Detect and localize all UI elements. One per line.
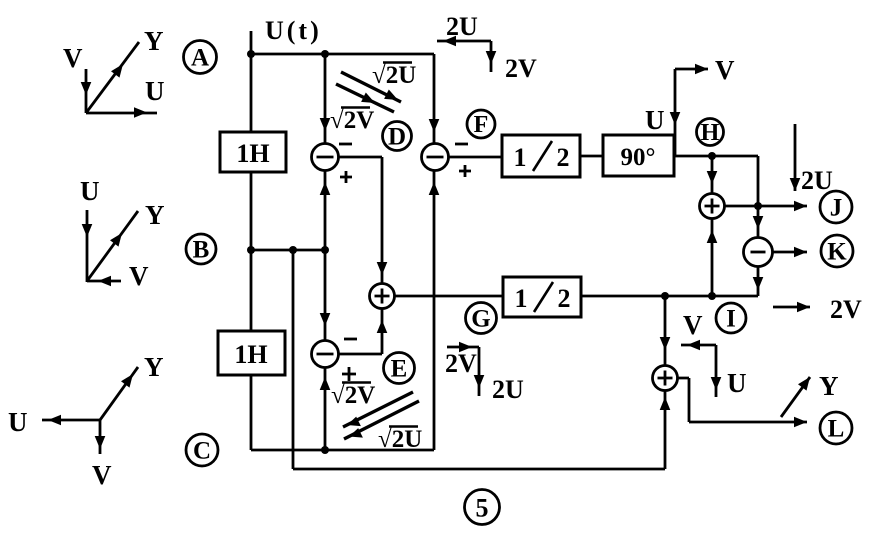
node K xyxy=(821,235,853,267)
value label sqrt2V (top) xyxy=(330,107,374,134)
svg-text:2U: 2U xyxy=(446,12,478,41)
wire: F output to 1/2 box xyxy=(449,156,503,159)
wire: arrow toward node J xyxy=(794,201,807,212)
label plus at E xyxy=(342,367,356,381)
wire: arrow into F top xyxy=(429,119,440,132)
svg-text:U: U xyxy=(645,105,665,135)
svg-text:√2U: √2U xyxy=(378,426,422,453)
svg-text:2U: 2U xyxy=(492,375,524,404)
label minus at D xyxy=(339,143,352,146)
wire: left bus x=251 (U(t) input down to bottom) xyxy=(250,31,253,450)
svg-text:Y: Y xyxy=(144,352,164,382)
svg-text:Y: Y xyxy=(145,200,165,230)
summer F (minus) xyxy=(422,144,449,171)
node J xyxy=(820,191,852,223)
svg-text:1: 1 xyxy=(515,284,528,313)
svg-text:U: U xyxy=(80,176,100,206)
wire: adder output to 1/2 box xyxy=(395,295,504,298)
block 90deg xyxy=(603,135,674,176)
node E xyxy=(384,353,415,384)
wire: right edge x=434 upper (into F) xyxy=(433,54,436,144)
svg-text:√2V: √2V xyxy=(330,107,374,134)
phasor arrow sqrt2V (bottom pair, upper) xyxy=(343,392,413,427)
wire: B bus y=250 xyxy=(251,249,325,252)
wire: x=325 from top edge into D xyxy=(324,54,327,144)
node G xyxy=(466,303,497,334)
svg-text:U: U xyxy=(145,76,165,106)
wire: arrow into adder L bottom xyxy=(660,397,671,410)
block 1H (lower) xyxy=(218,331,285,375)
svg-text:U(t): U(t) xyxy=(265,16,322,45)
svg-text:J: J xyxy=(830,195,843,222)
wire: 90deg output line y=156 xyxy=(674,155,758,158)
junction B bus / x=325 xyxy=(321,246,329,254)
junction 2V bus / L branch xyxy=(661,292,669,300)
phasor diagram C: U axis xyxy=(42,415,100,426)
svg-text:D: D xyxy=(388,124,406,151)
svg-text:2: 2 xyxy=(557,143,570,172)
phasor diagram B: U axis xyxy=(82,210,93,282)
svg-text:√2U: √2U xyxy=(372,62,416,89)
value label sqrt2U (top) xyxy=(372,62,416,89)
wire: arrow into D top xyxy=(320,118,331,131)
phasor diagram C: V axis xyxy=(95,420,106,454)
wire: arrow down on V tap (U flow) xyxy=(670,112,681,125)
junction 2V bus / H branch xyxy=(708,292,716,300)
marker right arrow 2V xyxy=(773,302,810,313)
marker down arrow 2U (right) xyxy=(790,124,801,191)
label minus at F xyxy=(455,143,468,146)
svg-text:K: K xyxy=(827,239,847,266)
block 1H (upper) xyxy=(220,132,286,172)
node A xyxy=(184,41,217,74)
wire: arrow below K xyxy=(753,277,764,290)
wire: arrow into K top xyxy=(753,216,764,229)
wire: x=325 between D and E xyxy=(324,171,327,341)
svg-text:L: L xyxy=(828,416,845,443)
svg-text:2V: 2V xyxy=(445,349,477,378)
wire: x=665 branch down to adder L xyxy=(664,296,667,366)
node C xyxy=(186,434,218,466)
adder (plus) below H xyxy=(700,194,725,219)
wire: bottom return bus y=469 xyxy=(293,468,665,471)
wire: arrow toward V label xyxy=(695,64,708,75)
wire: x=758 down through J line into K xyxy=(757,156,760,238)
wire: top edge y=54 xyxy=(251,53,434,56)
wire: x=293 vertical down xyxy=(292,250,295,469)
wire: arrow into adder bottom xyxy=(377,320,388,333)
svg-text:1H: 1H xyxy=(234,340,267,369)
svg-text:2: 2 xyxy=(558,284,571,313)
svg-text:E: E xyxy=(391,356,408,383)
junction top edge / D branch xyxy=(321,50,329,58)
phasor diagram B: Y axis xyxy=(87,211,138,281)
wire: arrow into adder H bottom xyxy=(707,230,718,243)
node L xyxy=(820,412,852,444)
wire: arrow into E top xyxy=(320,313,331,326)
svg-text:√2V: √2V xyxy=(331,382,375,409)
wire: K bottom to 2V bus xyxy=(757,267,760,297)
wire: arrow into D bottom xyxy=(320,182,331,195)
summer E (minus) xyxy=(312,341,339,368)
node I xyxy=(716,303,746,333)
svg-text:1: 1 xyxy=(514,143,527,172)
wire: arrow into adder L top xyxy=(660,337,671,350)
junction left bus / B bus xyxy=(247,246,255,254)
svg-text:H: H xyxy=(701,120,720,146)
label plus at D xyxy=(340,171,352,183)
svg-text:V: V xyxy=(715,55,735,85)
wire: between 1/2 and 90deg xyxy=(580,155,603,158)
wire: arrow into adder top xyxy=(377,262,388,275)
wire: arrow into adder H from top xyxy=(707,171,718,184)
wire: arrow toward node L xyxy=(794,417,807,428)
node F xyxy=(467,110,495,138)
svg-text:Y: Y xyxy=(144,26,164,56)
summer K (minus) xyxy=(744,238,773,267)
wire: arrow into E bottom xyxy=(320,377,331,390)
block 1/2 (lower) xyxy=(503,277,581,317)
wire: x=712 branch up from 2V bus to adder H xyxy=(711,219,714,297)
wire: D output right then down xyxy=(339,157,383,284)
marker V/U near L: down arrow xyxy=(711,345,722,397)
svg-text:1H: 1H xyxy=(236,139,269,168)
svg-text:Y: Y xyxy=(819,371,839,401)
svg-text:U: U xyxy=(727,368,747,398)
junction 90deg output / H branch xyxy=(708,152,716,160)
wire: adder H output to node J xyxy=(725,205,808,208)
wire: x=325 below E to bottom edge xyxy=(324,368,327,451)
wire: E output right then up into adder xyxy=(339,309,383,355)
svg-text:90°: 90° xyxy=(621,144,656,171)
phasor diagram C: Y axis xyxy=(100,367,138,420)
wire: x=712 from junction into adder H top xyxy=(711,156,714,194)
svg-text:V: V xyxy=(129,261,149,291)
marker Y diagonal near L xyxy=(781,377,810,417)
svg-text:2V: 2V xyxy=(830,295,862,324)
block 1/2 (upper) xyxy=(502,135,580,177)
svg-text:A: A xyxy=(191,45,209,72)
wire: right edge x=434 lower xyxy=(433,171,436,451)
svg-text:V: V xyxy=(683,310,703,340)
wire: adder L output to node L xyxy=(678,378,808,422)
phasor arrow sqrt2V (top pair, lower) xyxy=(336,84,394,112)
summer D (minus) xyxy=(312,144,339,171)
svg-text:2U: 2U xyxy=(801,166,833,195)
phasor arrow sqrt2U (bottom pair, lower) xyxy=(344,401,419,439)
marker V/U near L: left arrow xyxy=(681,340,716,351)
phasor diagram A: U axis xyxy=(86,107,157,118)
wire: bottom edge y=450 xyxy=(251,449,434,452)
phasor diagram A: V axis xyxy=(81,69,92,113)
junction at U(t) top xyxy=(247,50,255,58)
label minus at E xyxy=(344,338,357,341)
junction J line / K branch xyxy=(754,202,762,210)
adder (plus) at L branch xyxy=(653,366,678,391)
wire: K output to node K xyxy=(773,251,808,254)
phasor diagram B: V axis xyxy=(87,276,121,287)
svg-text:2V: 2V xyxy=(505,54,537,83)
figure number 5 xyxy=(465,490,500,525)
marker 2U/2V (top): left arrow xyxy=(437,36,491,47)
value label sqrt2V (bottom) xyxy=(331,382,375,409)
label plus at F xyxy=(459,165,471,177)
svg-text:I: I xyxy=(726,306,736,333)
svg-text:5: 5 xyxy=(476,494,489,523)
wire: 2V bus y=296 xyxy=(581,295,758,298)
svg-text:C: C xyxy=(193,438,211,465)
adder (plus) between D and E outputs xyxy=(370,284,395,309)
node B xyxy=(186,234,216,264)
junction bottom edge / E branch xyxy=(321,446,329,454)
svg-text:V: V xyxy=(63,43,83,73)
wire: arrow toward node K xyxy=(794,247,807,258)
value label sqrt2U (bottom) xyxy=(378,426,422,453)
node H xyxy=(697,119,724,147)
junction B bus / x=293 xyxy=(289,246,297,254)
marker 2U/2V (top): down arrow xyxy=(486,41,497,72)
phasor diagram A: Y axis xyxy=(86,42,139,113)
svg-text:B: B xyxy=(193,237,210,264)
node D xyxy=(383,122,412,151)
svg-text:G: G xyxy=(471,306,490,333)
wire: V tap up from 90deg output corner xyxy=(675,69,708,156)
wire: x=665 below adder to return bus xyxy=(664,391,667,470)
phasor arrow sqrt2U (top pair, upper) xyxy=(341,72,401,102)
svg-text:V: V xyxy=(92,460,112,490)
wire: arrow into F bottom xyxy=(429,182,440,195)
svg-text:F: F xyxy=(474,112,489,138)
marker 2V/2U (middle): down arrow xyxy=(474,347,485,396)
marker 2V/2U (middle): right arrow xyxy=(447,342,479,353)
svg-text:U: U xyxy=(8,407,28,437)
